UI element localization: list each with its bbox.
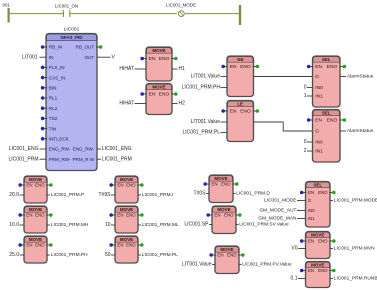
- LE ENO dot: [253, 109, 259, 113]
- svg-text:LIT001.Value: LIT001.Value: [191, 119, 221, 125]
- SEL1 ENO dot: [340, 65, 346, 69]
- move block M4: [306, 232, 331, 259]
- svg-text:LIT001: LIT001: [22, 54, 38, 60]
- svg-text:MOVE: MOVE: [311, 232, 324, 237]
- wire 10 to I2 IN: [111, 224, 115, 226]
- svg-text:HIHAT: HIHAT: [119, 66, 134, 72]
- wire I2 OUT: [138, 224, 141, 226]
- svg-text:ENO: ENO: [35, 183, 45, 188]
- P3 EN dot: [18, 243, 24, 247]
- coil LIC001_MODE: [178, 11, 184, 17]
- svg-text:PLS_IN: PLS_IN: [49, 65, 65, 70]
- svg-text:EN: EN: [217, 253, 223, 258]
- svg-text:LIC001_ENG: LIC001_ENG: [9, 146, 39, 152]
- svg-text:RL2: RL2: [49, 106, 58, 111]
- svg-text:EN: EN: [308, 239, 314, 244]
- svg-text:TS2: TS2: [49, 116, 58, 121]
- svg-text:CAS_IN: CAS_IN: [49, 75, 66, 80]
- svg-text:LIC001_PRM.PL: LIC001_PRM.PL: [142, 252, 178, 258]
- svg-text:001: 001: [3, 2, 11, 7]
- svg-text:ENO: ENO: [327, 118, 338, 124]
- svg-text:ENO: ENO: [240, 109, 251, 115]
- svg-text:LIC001_PRM.PL: LIC001_PRM.PL: [182, 130, 220, 136]
- svg-text:GM_MODE_AUT: GM_MODE_AUT: [259, 208, 296, 214]
- rung wire right segment: [185, 13, 240, 15]
- svg-text:MOVE: MOVE: [29, 177, 42, 182]
- wire 2 to SEL2 IN1: [307, 150, 313, 152]
- wire M4 OUT: [330, 248, 333, 250]
- P3 ENO dot: [46, 243, 52, 247]
- right power rail: [239, 5, 241, 25]
- M2 ENO dot: [171, 92, 177, 96]
- svg-text:PRM_R W: PRM_R W: [72, 157, 94, 162]
- wire P2 OUT: [47, 224, 50, 226]
- wire LIC001_MODE to SEL3 G: [297, 200, 306, 202]
- move block I1: [115, 176, 138, 203]
- svg-text:EN: EN: [26, 243, 32, 248]
- output pin dot RB_OUT: [96, 45, 102, 49]
- svg-text:IN1: IN1: [315, 94, 323, 100]
- wire LIC001_PRM.PL to LE IN2: [221, 132, 228, 134]
- svg-text:MOVE: MOVE: [120, 237, 133, 242]
- svg-text:MOVE: MOVE: [120, 177, 133, 182]
- D3 ENO dot: [238, 253, 244, 257]
- D3 EN dot: [209, 253, 215, 257]
- selector SEL2: [313, 110, 341, 163]
- D1 EN dot: [203, 182, 209, 186]
- wire LIT001.Value to LE IN1: [221, 121, 228, 123]
- wire OUT to V: [97, 56, 111, 58]
- move block I3: [115, 236, 138, 263]
- svg-text:LIC001_PRM.SV.Value: LIC001_PRM.SV.Value: [239, 222, 289, 228]
- wire P3 OUT: [47, 254, 50, 256]
- svg-text:T#9S: T#9S: [99, 192, 112, 198]
- GE EN dot: [221, 65, 227, 69]
- wire 25.0 to P3 IN: [20, 254, 25, 256]
- svg-text:0: 0: [304, 85, 307, 91]
- svg-text:SEL: SEL: [322, 110, 331, 115]
- wire I3 OUT: [138, 254, 141, 256]
- svg-text:ENO: ENO: [240, 64, 251, 70]
- M4 EN dot: [300, 239, 306, 243]
- svg-text:ENO: ENO: [227, 253, 237, 258]
- svg-text:RB_OUT: RB_OUT: [76, 45, 95, 50]
- SEL2 EN dot: [307, 118, 313, 122]
- wire M5 OUT: [330, 278, 333, 280]
- svg-text:25.0: 25.0: [9, 252, 19, 258]
- svg-text:0: 0: [304, 139, 307, 145]
- svg-text:EN: EN: [117, 213, 123, 218]
- I1 ENO dot: [137, 183, 143, 187]
- svg-text:LIC001_ENG: LIC001_ENG: [102, 146, 132, 152]
- svg-text:MOVE: MOVE: [120, 207, 133, 212]
- wire M1 OUT: [172, 68, 178, 70]
- svg-text:EN: EN: [214, 213, 220, 218]
- svg-text:RL1: RL1: [49, 96, 58, 101]
- wire V0 to M4 IN: [298, 248, 306, 250]
- svg-text:MOVE: MOVE: [214, 176, 227, 181]
- P2 ENO dot: [46, 213, 52, 217]
- svg-text:ENO: ENO: [318, 239, 328, 244]
- input pin dot BIN: [41, 86, 47, 90]
- svg-text:MOVE: MOVE: [29, 237, 42, 242]
- svg-text:RB_IN: RB_IN: [49, 45, 63, 50]
- wire P1 OUT: [47, 194, 50, 196]
- GE ENO dot: [253, 65, 259, 69]
- svg-text:LIC001_PRM.MH: LIC001_PRM.MH: [51, 222, 89, 228]
- D1 ENO dot: [232, 182, 238, 186]
- move block P1: [24, 176, 47, 203]
- svg-text:20.0: 20.0: [9, 192, 19, 198]
- selector SEL1: [313, 56, 341, 107]
- svg-text:ENO: ENO: [318, 268, 328, 273]
- input pin dot TIN: [41, 127, 47, 131]
- I3 ENO dot: [137, 243, 143, 247]
- svg-text:ENG_RW-: ENG_RW-: [49, 147, 71, 152]
- input pin dot CAS_IN: [41, 76, 47, 80]
- I2 ENO dot: [137, 213, 143, 217]
- wire T#0S to D1 IN: [206, 193, 209, 195]
- svg-text:1: 1: [304, 93, 307, 99]
- svg-text:MOVE: MOVE: [152, 48, 165, 53]
- wire PRM_RW out: [97, 158, 101, 160]
- svg-text:ENO: ENO: [159, 92, 170, 98]
- wire 10.0 to P2 IN: [20, 224, 25, 226]
- svg-text:HIHAT: HIHAT: [119, 101, 134, 107]
- svg-text:ENO: ENO: [126, 183, 136, 188]
- svg-text:EN: EN: [211, 182, 217, 187]
- svg-text:LIC001_PRM: LIC001_PRM: [8, 156, 38, 162]
- wire LIC001_ENG to ENG_RW-: [40, 148, 47, 150]
- wire 20.0 to P1 IN: [20, 194, 25, 196]
- svg-text:LIC001_PRM: LIC001_PRM: [102, 156, 132, 162]
- wire D1 OUT: [233, 193, 236, 195]
- M5 ENO dot: [329, 269, 335, 273]
- move block P3: [24, 236, 47, 263]
- svg-text:LIC001_PRM.MVN: LIC001_PRM.MVN: [334, 246, 375, 252]
- rung wire middle segment: [70, 13, 176, 15]
- svg-text:EN: EN: [315, 64, 322, 70]
- svg-text:MOVE: MOVE: [152, 84, 165, 89]
- wire LIC001.SP to D2 IN: [209, 224, 212, 226]
- svg-text:LIT001.Value: LIT001.Value: [191, 74, 221, 80]
- svg-text:EN: EN: [308, 268, 314, 273]
- wire 0.1 to M5 IN: [298, 278, 306, 280]
- P2 EN dot: [18, 213, 24, 217]
- svg-text:H1: H1: [179, 66, 186, 72]
- move block D2: [212, 206, 236, 234]
- M2 EN dot: [140, 92, 146, 96]
- left power rail: [8, 8, 10, 23]
- svg-text:EN: EN: [149, 92, 156, 98]
- comparator LE: [227, 101, 254, 142]
- I3 EN dot: [109, 243, 115, 247]
- wire SEL1 OUT: [340, 76, 346, 78]
- wire LIT001.Value to D3 IN: [212, 264, 215, 266]
- svg-text:LIC001_PRM.P: LIC001_PRM.P: [51, 192, 84, 198]
- svg-text:EN: EN: [117, 243, 123, 248]
- SEL3 ENO dot: [329, 191, 335, 195]
- SEL1 EN dot: [307, 65, 313, 69]
- svg-text:LIC001_PRM.RUNBACK: LIC001_PRM.RUNBACK: [334, 276, 377, 282]
- svg-text:ENO: ENO: [318, 190, 328, 195]
- svg-text:2: 2: [304, 148, 307, 154]
- svg-text:MOVE: MOVE: [29, 207, 42, 212]
- svg-text:LIC001_MODE: LIC001_MODE: [166, 2, 196, 7]
- move block D1: [209, 175, 233, 203]
- svg-text:H2: H2: [179, 101, 186, 107]
- M4 ENO dot: [329, 239, 335, 243]
- svg-text:ENO: ENO: [221, 182, 231, 187]
- svg-text:10.0: 10.0: [9, 222, 19, 228]
- SEL3 EN dot: [300, 191, 306, 195]
- svg-text:EN: EN: [149, 56, 156, 62]
- function block U1 LIC001 type NFAS_PID: [46, 34, 97, 171]
- I1 EN dot: [109, 183, 115, 187]
- svg-text:ENO: ENO: [224, 213, 234, 218]
- wire SEL2 OUT: [340, 130, 346, 132]
- move block M5: [306, 262, 331, 288]
- svg-text:IN0: IN0: [315, 140, 323, 146]
- svg-text:G: G: [315, 74, 319, 80]
- svg-text:MOVE: MOVE: [311, 262, 324, 267]
- svg-text:IN1: IN1: [315, 149, 323, 155]
- input pin dot INTLOCK: [41, 137, 47, 141]
- svg-text:IN1: IN1: [308, 216, 315, 221]
- svg-text:EN: EN: [230, 109, 237, 115]
- svg-text:OUT: OUT: [84, 55, 94, 60]
- P1 ENO dot: [46, 183, 52, 187]
- svg-text:G: G: [315, 129, 319, 135]
- svg-text:MOVE: MOVE: [220, 247, 233, 252]
- SEL2 ENO dot: [340, 118, 346, 122]
- svg-text:EN: EN: [315, 118, 322, 124]
- selector SEL3: [306, 182, 331, 228]
- svg-text:TIN: TIN: [49, 126, 56, 131]
- svg-text:SEL: SEL: [322, 57, 331, 62]
- wire I1 OUT: [138, 194, 141, 196]
- svg-text:10: 10: [105, 222, 111, 228]
- LE EN dot: [221, 109, 227, 113]
- input pin dot TS2: [41, 117, 47, 121]
- move block M1: [146, 47, 172, 81]
- svg-text:LIC001_PRM.I: LIC001_PRM.I: [142, 192, 173, 198]
- input pin dot RL1: [41, 96, 47, 100]
- wire 0 to SEL2 IN0: [307, 141, 313, 143]
- svg-text:GM_MODE_MAN: GM_MODE_MAN: [258, 216, 297, 222]
- svg-text:MOVE: MOVE: [217, 207, 230, 212]
- move block P2: [24, 206, 47, 233]
- input pin dot RL2: [41, 106, 47, 110]
- svg-text:LIT001.Value: LIT001.Value: [182, 262, 212, 268]
- P1 EN dot: [18, 183, 24, 187]
- wire 50 to I3 IN: [111, 254, 115, 256]
- wire HIHAT to M1 IN: [135, 68, 147, 70]
- svg-text:ENO: ENO: [327, 64, 338, 70]
- wire ENG_RW- out: [97, 148, 101, 150]
- svg-text:GE: GE: [237, 57, 244, 62]
- svg-text:AlarmStatus: AlarmStatus: [347, 128, 374, 134]
- svg-text:ENG_RW-: ENG_RW-: [73, 147, 95, 152]
- move block I2: [115, 206, 138, 233]
- svg-text:LIC001_MODE: LIC001_MODE: [264, 198, 297, 204]
- svg-text:SEL: SEL: [313, 182, 322, 187]
- svg-text:G: G: [308, 198, 312, 203]
- D2 ENO dot: [235, 213, 241, 217]
- wire LIC001_PRM.PH to GE IN2: [221, 87, 228, 89]
- svg-text:0.1: 0.1: [291, 276, 298, 282]
- wire GE OUT to SEL1 G: [254, 76, 313, 78]
- svg-text:LIC001_PRM.PV.Value: LIC001_PRM.PV.Value: [242, 262, 292, 268]
- rung wire left segment: [10, 13, 64, 15]
- comparator GE: [227, 56, 254, 97]
- wire D3 OUT: [239, 264, 242, 266]
- svg-text:LIC001.SP: LIC001.SP: [184, 222, 209, 228]
- svg-text:IN0: IN0: [315, 85, 323, 91]
- svg-text:NFAS_PID: NFAS_PID: [60, 35, 83, 40]
- move block D3: [215, 246, 239, 274]
- input pin dot PLS_IN: [41, 66, 47, 70]
- svg-text:LIC001_PRM.PH: LIC001_PRM.PH: [51, 252, 88, 258]
- wire LIC001_PRM to PRM_RW-: [40, 158, 47, 160]
- svg-text:IN: IN: [49, 55, 54, 60]
- svg-text:LIC001_PRM.ML: LIC001_PRM.ML: [142, 222, 179, 228]
- wire 1 to SEL1 IN1: [307, 95, 313, 97]
- wire 0 to SEL1 IN0: [307, 87, 313, 89]
- wire T#9S to I1 IN: [111, 194, 115, 196]
- svg-text:EN: EN: [26, 183, 32, 188]
- wire SEL3 OUT: [330, 200, 333, 202]
- svg-text:PRM_RW-: PRM_RW-: [49, 157, 71, 162]
- svg-text:EN: EN: [230, 64, 237, 70]
- D2 EN dot: [206, 213, 212, 217]
- svg-text:ENO: ENO: [126, 243, 136, 248]
- svg-text:EN: EN: [117, 183, 123, 188]
- wire LIT001 to IN: [40, 56, 47, 58]
- M1 EN dot: [140, 57, 146, 61]
- svg-text:LIC001_ON: LIC001_ON: [55, 3, 78, 8]
- wire GM_MODE_AUT to SEL3 IN0: [297, 210, 306, 212]
- svg-text:ENO: ENO: [35, 243, 45, 248]
- svg-text:LIC001_PRM.PH: LIC001_PRM.PH: [182, 85, 221, 91]
- svg-text:EN: EN: [308, 190, 314, 195]
- svg-text:IN0: IN0: [308, 208, 315, 213]
- input pin dot RB_IN: [41, 45, 47, 49]
- svg-text:LIC001_PRM.MODE: LIC001_PRM.MODE: [334, 198, 377, 204]
- svg-text:LIC001: LIC001: [64, 26, 80, 32]
- svg-text:ENO: ENO: [126, 213, 136, 218]
- move block M2: [146, 84, 172, 115]
- svg-text:EN: EN: [26, 213, 32, 218]
- svg-text:AlarmStatus: AlarmStatus: [347, 74, 374, 80]
- svg-text:ENO: ENO: [159, 56, 170, 62]
- svg-text:INTLOCK: INTLOCK: [49, 137, 70, 142]
- wire M2 OUT: [172, 103, 178, 105]
- svg-text:V0: V0: [291, 246, 297, 252]
- wire LIT001.Value to GE IN1: [221, 76, 228, 78]
- svg-text:LE: LE: [237, 101, 243, 106]
- wire HIHAT to M2 IN: [135, 103, 147, 105]
- M1 ENO dot: [171, 57, 177, 61]
- svg-text:50: 50: [105, 252, 111, 258]
- svg-text:LIC001_PRM.D: LIC001_PRM.D: [236, 191, 270, 197]
- M5 EN dot: [300, 269, 306, 273]
- contact LIC001_ON: [63, 10, 69, 17]
- wire LE OUT to SEL2 G: [254, 122, 313, 131]
- svg-text:BIN: BIN: [49, 86, 57, 91]
- I2 EN dot: [109, 213, 115, 217]
- wire D2 OUT: [236, 224, 239, 226]
- wire GM_MODE_MAN to SEL3 IN1: [297, 218, 306, 220]
- svg-text:ENO: ENO: [35, 213, 45, 218]
- svg-text:T#0S: T#0S: [194, 191, 207, 197]
